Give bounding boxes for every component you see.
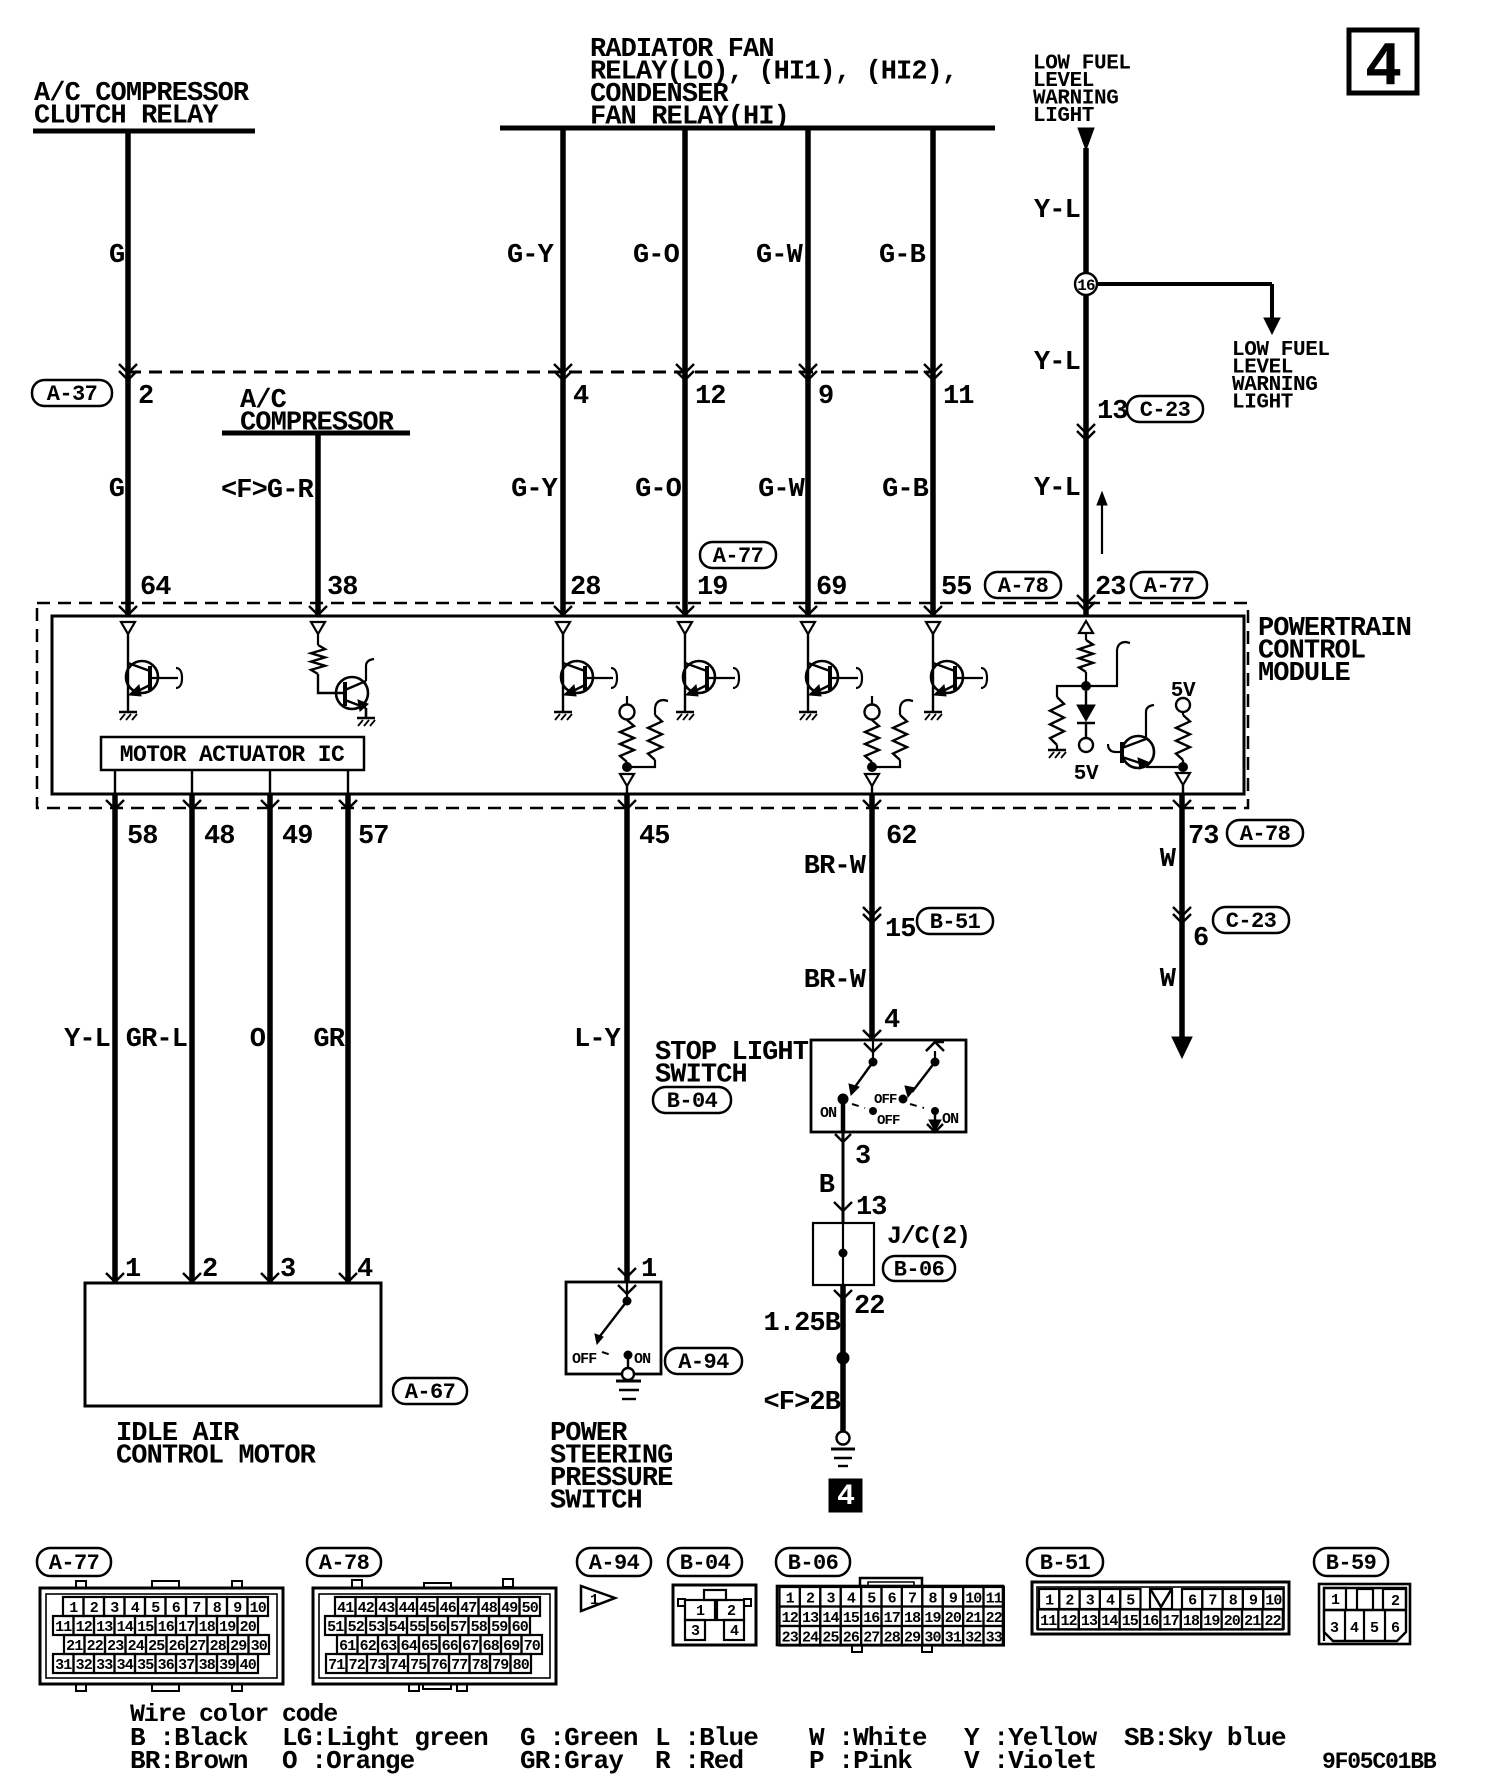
svg-text:2: 2 <box>138 382 153 412</box>
svg-text:9: 9 <box>949 1590 958 1607</box>
svg-text:37: 37 <box>178 1657 194 1674</box>
svg-text:1: 1 <box>69 1600 78 1617</box>
svg-text:3: 3 <box>1086 1593 1095 1610</box>
svg-text:5: 5 <box>151 1600 160 1617</box>
svg-text:<F>2B: <F>2B <box>763 1388 840 1418</box>
svg-text:B-06: B-06 <box>788 1551 838 1576</box>
svg-text:13: 13 <box>1081 1613 1098 1630</box>
svg-text:18: 18 <box>904 1610 921 1627</box>
svg-text:40: 40 <box>240 1657 257 1674</box>
svg-text:8: 8 <box>928 1590 937 1607</box>
svg-text:65: 65 <box>421 1638 438 1655</box>
svg-text:6: 6 <box>1193 924 1208 954</box>
svg-text:B-06: B-06 <box>894 1258 944 1283</box>
svg-text:1.25B: 1.25B <box>763 1309 840 1339</box>
svg-text:OFF: OFF <box>877 1113 900 1129</box>
svg-text:B-59: B-59 <box>1326 1551 1376 1576</box>
svg-text:16: 16 <box>158 1619 175 1636</box>
svg-text:19: 19 <box>1203 1613 1220 1630</box>
svg-text:64: 64 <box>140 573 171 603</box>
svg-text:11: 11 <box>55 1619 72 1636</box>
svg-text:55: 55 <box>409 1619 426 1636</box>
svg-text:42: 42 <box>358 1600 375 1617</box>
svg-text:2: 2 <box>727 1603 736 1620</box>
svg-text:MODULE: MODULE <box>1258 659 1351 689</box>
svg-text:48: 48 <box>204 822 235 852</box>
svg-text:51: 51 <box>327 1619 344 1636</box>
svg-text:69: 69 <box>503 1638 520 1655</box>
svg-text:9: 9 <box>233 1600 242 1617</box>
svg-text:4: 4 <box>837 1480 855 1514</box>
svg-text:G-W: G-W <box>758 475 806 505</box>
svg-text:18: 18 <box>199 1619 216 1636</box>
svg-text:W: W <box>1160 845 1177 875</box>
svg-text:14: 14 <box>1101 1613 1118 1630</box>
svg-text:3: 3 <box>855 1142 870 1172</box>
svg-text:50: 50 <box>522 1600 539 1617</box>
svg-text:17: 17 <box>1162 1613 1178 1630</box>
svg-text:CONTROL MOTOR: CONTROL MOTOR <box>116 1442 317 1472</box>
svg-text:O :Orange: O :Orange <box>282 1746 415 1776</box>
svg-text:69: 69 <box>816 573 847 603</box>
svg-text:68: 68 <box>483 1638 500 1655</box>
svg-text:A-78: A-78 <box>319 1551 370 1576</box>
svg-text:C-23: C-23 <box>1140 398 1191 423</box>
svg-text:45: 45 <box>639 822 670 852</box>
svg-text:LIGHT: LIGHT <box>1232 392 1293 415</box>
svg-text:77: 77 <box>451 1657 467 1674</box>
svg-text:2: 2 <box>1065 1593 1074 1610</box>
svg-text:13: 13 <box>856 1193 887 1223</box>
svg-text:13: 13 <box>96 1619 113 1636</box>
svg-text:79: 79 <box>492 1657 509 1674</box>
svg-text:A-94: A-94 <box>678 1350 729 1375</box>
svg-text:13: 13 <box>1097 397 1128 427</box>
svg-text:2: 2 <box>90 1600 99 1617</box>
svg-text:59: 59 <box>491 1619 508 1636</box>
svg-text:16: 16 <box>1077 277 1095 295</box>
svg-text:10: 10 <box>965 1590 982 1607</box>
svg-text:11: 11 <box>1040 1613 1057 1630</box>
svg-text:22: 22 <box>87 1638 104 1655</box>
svg-text:BR:Brown: BR:Brown <box>130 1746 248 1776</box>
svg-text:2: 2 <box>1391 1593 1400 1610</box>
svg-text:75: 75 <box>410 1657 427 1674</box>
svg-text:O: O <box>250 1025 266 1055</box>
svg-text:76: 76 <box>431 1657 448 1674</box>
svg-text:J/C(2): J/C(2) <box>887 1222 970 1251</box>
svg-text:B-51: B-51 <box>930 910 981 935</box>
svg-text:G-W: G-W <box>756 241 804 271</box>
svg-text:36: 36 <box>158 1657 175 1674</box>
svg-text:24: 24 <box>128 1638 145 1655</box>
svg-text:44: 44 <box>399 1600 416 1617</box>
svg-text:80: 80 <box>513 1657 530 1674</box>
svg-text:GR-L: GR-L <box>126 1025 187 1055</box>
svg-text:23: 23 <box>1095 573 1126 603</box>
svg-text:48: 48 <box>481 1600 498 1617</box>
svg-text:11: 11 <box>986 1590 1003 1607</box>
svg-text:BR-W: BR-W <box>804 966 867 996</box>
svg-text:39: 39 <box>219 1657 236 1674</box>
svg-text:V :Violet: V :Violet <box>964 1746 1096 1776</box>
svg-text:12: 12 <box>782 1610 799 1627</box>
svg-text:22: 22 <box>1264 1613 1281 1630</box>
svg-text:<F>G-R: <F>G-R <box>221 476 315 506</box>
svg-text:32: 32 <box>965 1629 982 1646</box>
svg-text:58: 58 <box>127 822 158 852</box>
svg-text:GR:Gray: GR:Gray <box>520 1746 624 1776</box>
svg-text:7: 7 <box>1208 1593 1216 1610</box>
svg-text:A-78: A-78 <box>998 574 1049 599</box>
svg-text:1: 1 <box>590 1592 599 1609</box>
svg-text:3: 3 <box>280 1255 295 1285</box>
svg-text:70: 70 <box>524 1638 541 1655</box>
svg-text:30: 30 <box>924 1629 941 1646</box>
svg-text:15: 15 <box>885 915 916 945</box>
svg-text:7: 7 <box>192 1600 200 1617</box>
svg-text:21: 21 <box>66 1638 83 1655</box>
svg-text:23: 23 <box>782 1629 799 1646</box>
svg-text:57: 57 <box>450 1619 466 1636</box>
svg-text:1: 1 <box>641 1255 657 1285</box>
svg-text:BR-W: BR-W <box>804 852 867 882</box>
svg-text:3: 3 <box>691 1623 700 1640</box>
svg-text:30: 30 <box>251 1638 268 1655</box>
svg-text:24: 24 <box>802 1629 819 1646</box>
svg-text:2: 2 <box>806 1590 815 1607</box>
svg-text:9: 9 <box>1249 1593 1258 1610</box>
svg-text:G-Y: G-Y <box>507 241 555 271</box>
svg-text:49: 49 <box>282 822 313 852</box>
svg-text:L-Y: L-Y <box>574 1025 622 1055</box>
svg-text:A-67: A-67 <box>405 1380 455 1405</box>
svg-text:8: 8 <box>1229 1593 1238 1610</box>
svg-text:67: 67 <box>462 1638 478 1655</box>
svg-text:32: 32 <box>76 1657 93 1674</box>
svg-text:18: 18 <box>1183 1613 1200 1630</box>
svg-text:26: 26 <box>843 1629 860 1646</box>
svg-text:38: 38 <box>199 1657 216 1674</box>
svg-text:60: 60 <box>512 1619 529 1636</box>
svg-text:4: 4 <box>357 1255 373 1285</box>
svg-text:G-B: G-B <box>882 475 929 505</box>
svg-text:6: 6 <box>1391 1620 1400 1637</box>
svg-text:12: 12 <box>1060 1613 1077 1630</box>
svg-text:15: 15 <box>137 1619 154 1636</box>
svg-text:8: 8 <box>213 1600 222 1617</box>
svg-text:B-51: B-51 <box>1040 1551 1091 1576</box>
svg-text:33: 33 <box>96 1657 113 1674</box>
svg-text:57: 57 <box>358 822 389 852</box>
svg-text:G-O: G-O <box>635 475 682 505</box>
svg-text:71: 71 <box>328 1657 345 1674</box>
svg-text:28: 28 <box>570 573 601 603</box>
svg-text:10: 10 <box>1265 1593 1282 1610</box>
svg-text:78: 78 <box>472 1657 489 1674</box>
svg-text:3: 3 <box>110 1600 119 1617</box>
svg-text:12: 12 <box>695 382 726 412</box>
svg-text:28: 28 <box>884 1629 901 1646</box>
svg-text:22: 22 <box>986 1610 1003 1627</box>
svg-text:16: 16 <box>863 1610 880 1627</box>
svg-text:73: 73 <box>369 1657 386 1674</box>
svg-text:B: B <box>819 1171 835 1201</box>
svg-text:Y-L: Y-L <box>1034 474 1080 504</box>
svg-text:GR: GR <box>313 1025 345 1055</box>
svg-text:55: 55 <box>941 573 972 603</box>
svg-text:4: 4 <box>884 1006 900 1036</box>
svg-text:4: 4 <box>1350 1620 1359 1637</box>
svg-text:5V: 5V <box>1074 763 1099 786</box>
svg-text:34: 34 <box>117 1657 134 1674</box>
svg-text:12: 12 <box>76 1619 93 1636</box>
svg-text:66: 66 <box>442 1638 459 1655</box>
svg-text:31: 31 <box>945 1629 962 1646</box>
svg-text:4: 4 <box>573 382 589 412</box>
svg-text:74: 74 <box>390 1657 407 1674</box>
svg-text:C-23: C-23 <box>1226 909 1277 934</box>
svg-text:6: 6 <box>1188 1593 1197 1610</box>
svg-text:49: 49 <box>501 1600 518 1617</box>
svg-text:B-04: B-04 <box>667 1089 718 1114</box>
svg-text:4: 4 <box>847 1590 856 1607</box>
svg-text:4: 4 <box>1365 32 1401 103</box>
svg-text:21: 21 <box>965 1610 982 1627</box>
svg-text:R :Red: R :Red <box>655 1746 743 1776</box>
svg-text:A-37: A-37 <box>47 382 97 407</box>
svg-text:G: G <box>109 241 124 271</box>
svg-text:7: 7 <box>908 1590 916 1607</box>
svg-text:25: 25 <box>148 1638 165 1655</box>
svg-text:4: 4 <box>1106 1593 1115 1610</box>
svg-text:ON: ON <box>942 1111 959 1128</box>
svg-text:29: 29 <box>904 1629 921 1646</box>
svg-text:62: 62 <box>886 822 917 852</box>
svg-text:4: 4 <box>730 1623 739 1640</box>
svg-text:6: 6 <box>172 1600 181 1617</box>
svg-text:G-B: G-B <box>879 241 926 271</box>
svg-text:LIGHT: LIGHT <box>1033 105 1094 128</box>
svg-text:A-78: A-78 <box>1240 822 1291 847</box>
svg-text:SWITCH: SWITCH <box>550 1487 642 1517</box>
svg-text:2: 2 <box>202 1255 217 1285</box>
svg-text:5V: 5V <box>1171 680 1196 703</box>
svg-text:73: 73 <box>1188 822 1219 852</box>
svg-text:20: 20 <box>945 1610 962 1627</box>
svg-text:61: 61 <box>339 1638 356 1655</box>
svg-text:17: 17 <box>884 1610 900 1627</box>
svg-text:Y-L: Y-L <box>1034 348 1080 378</box>
svg-text:63: 63 <box>380 1638 397 1655</box>
svg-text:35: 35 <box>137 1657 154 1674</box>
svg-text:58: 58 <box>471 1619 488 1636</box>
svg-text:27: 27 <box>863 1629 879 1646</box>
svg-text:A-94: A-94 <box>589 1551 640 1576</box>
svg-text:1: 1 <box>125 1255 141 1285</box>
svg-text:MOTOR ACTUATOR IC: MOTOR ACTUATOR IC <box>120 742 345 768</box>
svg-text:6: 6 <box>888 1590 897 1607</box>
svg-text:41: 41 <box>337 1600 354 1617</box>
svg-text:G-O: G-O <box>633 241 680 271</box>
svg-text:17: 17 <box>178 1619 194 1636</box>
svg-text:43: 43 <box>378 1600 395 1617</box>
svg-text:53: 53 <box>368 1619 385 1636</box>
svg-text:47: 47 <box>460 1600 476 1617</box>
svg-text:56: 56 <box>430 1619 447 1636</box>
svg-text:22: 22 <box>854 1292 885 1322</box>
svg-text:15: 15 <box>1122 1613 1139 1630</box>
svg-text:1: 1 <box>1045 1593 1054 1610</box>
svg-text:20: 20 <box>1224 1613 1241 1630</box>
svg-text:G-Y: G-Y <box>511 475 559 505</box>
svg-text:23: 23 <box>107 1638 124 1655</box>
svg-text:W: W <box>1160 965 1177 995</box>
svg-text:29: 29 <box>230 1638 247 1655</box>
svg-text:1: 1 <box>696 1603 705 1620</box>
svg-text:10: 10 <box>250 1600 267 1617</box>
svg-text:19: 19 <box>924 1610 941 1627</box>
svg-text:3: 3 <box>826 1590 835 1607</box>
svg-text:33: 33 <box>986 1629 1003 1646</box>
svg-text:3: 3 <box>1330 1620 1339 1637</box>
svg-text:25: 25 <box>822 1629 839 1646</box>
svg-text:5: 5 <box>867 1590 876 1607</box>
svg-text:G: G <box>109 475 124 505</box>
svg-text:52: 52 <box>348 1619 365 1636</box>
svg-text:14: 14 <box>117 1619 134 1636</box>
svg-text:SB:Sky blue: SB:Sky blue <box>1124 1723 1286 1753</box>
svg-text:15: 15 <box>843 1610 860 1627</box>
svg-text:5: 5 <box>1370 1620 1379 1637</box>
svg-text:P :Pink: P :Pink <box>809 1746 912 1776</box>
svg-text:1: 1 <box>786 1590 795 1607</box>
svg-text:CLUTCH RELAY: CLUTCH RELAY <box>34 102 219 132</box>
svg-text:OFF: OFF <box>874 1092 897 1108</box>
svg-text:20: 20 <box>240 1619 257 1636</box>
svg-text:ON: ON <box>820 1105 837 1122</box>
svg-text:A-77: A-77 <box>49 1551 99 1576</box>
svg-text:1: 1 <box>1331 1592 1340 1609</box>
svg-text:62: 62 <box>360 1638 377 1655</box>
svg-text:OFF: OFF <box>572 1351 597 1368</box>
svg-text:19: 19 <box>219 1619 236 1636</box>
svg-text:54: 54 <box>389 1619 406 1636</box>
svg-text:ON: ON <box>634 1351 651 1368</box>
svg-text:28: 28 <box>210 1638 227 1655</box>
svg-text:26: 26 <box>169 1638 186 1655</box>
svg-text:16: 16 <box>1142 1613 1159 1630</box>
svg-text:27: 27 <box>189 1638 205 1655</box>
svg-text:38: 38 <box>327 573 358 603</box>
svg-text:14: 14 <box>822 1610 839 1627</box>
svg-text:5: 5 <box>1126 1593 1135 1610</box>
svg-text:Y-L: Y-L <box>64 1025 110 1055</box>
svg-text:9: 9 <box>818 382 833 412</box>
svg-text:21: 21 <box>1244 1613 1261 1630</box>
svg-text:64: 64 <box>401 1638 418 1655</box>
svg-text:31: 31 <box>55 1657 72 1674</box>
svg-text:4: 4 <box>131 1600 140 1617</box>
svg-text:11: 11 <box>943 382 974 412</box>
svg-text:13: 13 <box>802 1610 819 1627</box>
svg-text:46: 46 <box>440 1600 457 1617</box>
svg-text:B-04: B-04 <box>680 1551 731 1576</box>
svg-text:72: 72 <box>349 1657 366 1674</box>
svg-text:19: 19 <box>697 573 728 603</box>
svg-text:A-77: A-77 <box>713 544 763 569</box>
svg-text:9F05C01BB: 9F05C01BB <box>1322 1749 1437 1775</box>
svg-text:Y-L: Y-L <box>1034 196 1080 226</box>
svg-text:A-77: A-77 <box>1144 574 1194 599</box>
svg-text:45: 45 <box>419 1600 436 1617</box>
